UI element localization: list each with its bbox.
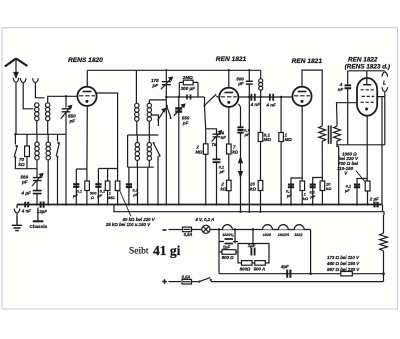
- ground jack: [14, 205, 20, 217]
- capacitor 0,1uF leg2: [95, 183, 101, 205]
- tube REN 1821 first: [219, 88, 238, 107]
- svg-text:0,5A: 0,5A: [184, 232, 193, 237]
- coil L8 lower secondary: [147, 135, 151, 167]
- svg-text:L: L: [383, 81, 386, 87]
- resistor 500 Ohm cathode: [85, 169, 90, 205]
- resistor 800 Ohm box: [242, 261, 253, 266]
- callout line 40k: [120, 191, 131, 217]
- resistor 2 MOhm grid leak: [183, 80, 193, 85]
- svg-text:µF: µF: [286, 193, 292, 198]
- wire loop to switch: [198, 96, 205, 98]
- wire drop to 1uF box: [252, 230, 254, 244]
- svg-text:kΩ: kΩ: [18, 162, 25, 167]
- svg-text:µF: µF: [219, 169, 225, 174]
- switch S4: [153, 142, 161, 205]
- callout 1060 Ohm: [356, 171, 366, 183]
- capacitor 0,1uF leg1: [73, 183, 79, 205]
- wire jack A2 to coil L1: [23, 85, 33, 109]
- wire tube2 anode up: [228, 70, 230, 87]
- node rail 500pF: [248, 69, 250, 71]
- wire tube3 cathode: [301, 107, 303, 181]
- capacitor 4 nF on bus: [25, 202, 28, 208]
- bus junction dots: [36, 203, 369, 213]
- svg-text:800Ω: 800Ω: [240, 266, 251, 271]
- wire primary bottom to 20k: [321, 143, 323, 181]
- heater 1820 a: [223, 225, 233, 230]
- label 1060 Ohm block: [337, 152, 359, 176]
- svg-text:REN 1822: REN 1822: [348, 56, 378, 63]
- wire anode rail top: [87, 69, 260, 71]
- node mid-left: [14, 133, 16, 135]
- svg-text:MΩ: MΩ: [195, 149, 203, 154]
- grid leak loop: [179, 82, 198, 97]
- wire jack A3 to grid node: [35, 85, 44, 98]
- capacitor 0,1uF AF: [310, 178, 323, 205]
- svg-text:41 gi: 41 gi: [153, 243, 181, 258]
- svg-text:kΩ: kΩ: [303, 196, 309, 201]
- resistor 20 kOhm AF: [320, 181, 325, 205]
- svg-text:1820: 1820: [263, 233, 272, 237]
- svg-text:µF: µF: [237, 81, 244, 86]
- antenna jack A2: [20, 78, 26, 85]
- svg-text:1821½: 1821½: [278, 233, 290, 237]
- wire coil tap: [151, 115, 159, 126]
- svg-text:480 Ω bei 150 V: 480 Ω bei 150 V: [326, 261, 360, 266]
- svg-text:Chassis: Chassis: [30, 224, 48, 229]
- node rail 175pF: [165, 69, 167, 71]
- node heater return: [309, 272, 312, 275]
- svg-text:nF: nF: [221, 135, 227, 140]
- wire plus lead: [169, 281, 182, 283]
- wire mains right vertical: [383, 274, 385, 282]
- wire tube1 anode up: [86, 70, 88, 86]
- svg-text:REN 1821: REN 1821: [216, 56, 247, 63]
- node heater mid2: [252, 228, 254, 230]
- antenna jack A3: [33, 78, 39, 85]
- bus chassis rail: [17, 204, 383, 206]
- wire mid horizontal stage1: [15, 133, 66, 135]
- fuse 0,5A bottom: [182, 279, 192, 284]
- svg-text:800 Ω: 800 Ω: [222, 255, 235, 260]
- capacitor 1 uF shunt: [219, 239, 238, 244]
- fuse 0,5A top: [181, 227, 202, 232]
- antenna: [5, 59, 28, 85]
- svg-text:(RENS 1823 d.): (RENS 1823 d.): [345, 63, 390, 70]
- svg-text:173 Ω bei 110 V: 173 Ω bei 110 V: [327, 255, 360, 260]
- capacitor 4 uF: [33, 191, 42, 205]
- svg-text:µF: µF: [132, 192, 138, 197]
- svg-text:pF: pF: [182, 120, 189, 125]
- svg-text:500 A: 500 A: [254, 266, 266, 271]
- RF choke: [259, 70, 263, 97]
- svg-text:pF: pF: [21, 180, 28, 185]
- svg-text:4µF: 4µF: [280, 264, 289, 269]
- svg-text:1µF: 1µF: [248, 243, 256, 248]
- switch S1 wave band left: [14, 134, 17, 168]
- svg-text:2MΩ: 2MΩ: [182, 75, 193, 80]
- svg-text:RENS 1820: RENS 1820: [68, 57, 103, 64]
- wire tube1 cathode down: [86, 107, 88, 169]
- capacitor 2 uF on bus: [375, 202, 378, 208]
- variable capacitor 175 pF: [161, 70, 172, 204]
- capacitor 4 nF grid tube4: [345, 71, 352, 145]
- wire secondary top to grid node: [149, 99, 166, 101]
- wire secondary top to grid tube4: [337, 103, 358, 126]
- coil L5 coupling primary: [135, 103, 139, 135]
- capacitor 0,1uF leg3: [126, 183, 132, 205]
- svg-text:MΩ: MΩ: [285, 137, 293, 142]
- svg-text:4 nF: 4 nF: [21, 209, 31, 214]
- svg-text:pF: pF: [69, 119, 76, 124]
- potentiometer arrow: [239, 157, 243, 211]
- tube RENS 1820: [77, 87, 96, 106]
- variable capacitor 550 pF second gang: [174, 97, 185, 205]
- wire mid horizontal stage2: [128, 134, 159, 136]
- node rail tube2: [228, 69, 230, 71]
- AF transformer core: [329, 125, 332, 143]
- wire anode tube4 to jack: [378, 97, 385, 145]
- svg-text:µF: µF: [309, 194, 315, 199]
- svg-text:kΩ: kΩ: [250, 186, 256, 191]
- wire rail drop to coupling coil: [135, 70, 137, 103]
- wire jack line down: [381, 97, 383, 205]
- svg-text:µF: µF: [344, 188, 350, 193]
- wire heater chain: [218, 229, 311, 231]
- coil L3 lower primary: [35, 134, 39, 168]
- heater 1820 b: [263, 225, 273, 230]
- capacitor 12 uF on bus: [41, 202, 44, 208]
- resistor 1 MOhm grid tube3: [279, 97, 284, 205]
- switch S5 grid tube2: [204, 94, 219, 107]
- resistor 2 MOhm bias: [203, 107, 208, 205]
- heater network box: [238, 244, 269, 263]
- svg-text:300 µF: 300 µF: [181, 86, 196, 91]
- capacitor 0,1 uF bias: [213, 159, 221, 204]
- resistor 500 Ohm box: [255, 261, 265, 266]
- variable capacitor 550 pF: [61, 96, 72, 204]
- resistor box mains: [341, 272, 353, 276]
- svg-text:µF: µF: [96, 193, 102, 198]
- node grid tube3: [280, 96, 282, 98]
- svg-text:Ta: Ta: [211, 142, 217, 147]
- switch S3: [166, 105, 172, 119]
- ground symbol: [12, 216, 22, 231]
- AF transformer primary winding: [319, 126, 326, 143]
- resistor 70 kOhm: [25, 134, 30, 168]
- svg-text:867 Ω bei 220 V: 867 Ω bei 220 V: [327, 267, 360, 272]
- wire tube4 cathode: [366, 116, 368, 181]
- svg-text:kΩ: kΩ: [232, 149, 238, 154]
- terminal minus: [163, 229, 167, 231]
- svg-text:2 µF: 2 µF: [369, 197, 379, 202]
- capacitor 0,1 uF screen tube2: [237, 104, 243, 158]
- coil L2 antenna secondary: [46, 98, 50, 135]
- capacitor 500 pF anode: [246, 70, 253, 213]
- wire cathode jog: [76, 169, 87, 183]
- svg-text:MΩ: MΩ: [264, 137, 272, 142]
- wire tube1 grid to coil L2: [48, 96, 77, 98]
- capacitor 1 uF box: [251, 248, 254, 256]
- node loop left: [178, 96, 180, 98]
- switch mains: [192, 278, 384, 283]
- resistor 2 kOhm: [227, 180, 232, 204]
- speaker jack upper: [382, 71, 388, 77]
- chassis connection: [33, 208, 44, 222]
- resistor 1 kOhm cathode tube3: [300, 181, 305, 205]
- svg-text:nF: nF: [338, 87, 344, 92]
- bus second rail: [114, 205, 384, 216]
- wire bus1 right down: [382, 205, 384, 212]
- AF transformer secondary winding: [334, 126, 341, 143]
- wire stage2 legs: [129, 167, 148, 204]
- svg-text:1822: 1822: [294, 233, 303, 237]
- variable capacitor 560 pF: [32, 169, 43, 190]
- trimmer Ta: [206, 129, 222, 159]
- svg-text:REN 1821: REN 1821: [292, 58, 323, 65]
- resistor 20 kOhm volume: [258, 181, 263, 212]
- dial lamp 4V 0,2A: [202, 225, 218, 233]
- svg-text:0,5A: 0,5A: [182, 275, 191, 280]
- resistor 40k dropper: [115, 169, 120, 205]
- switch S2 wave band right: [56, 134, 59, 204]
- wire heater end down: [310, 230, 312, 274]
- wire minus lead: [169, 229, 182, 231]
- svg-text:1µF: 1µF: [223, 244, 231, 249]
- heater 1822: [294, 225, 304, 230]
- coil L6 coupling secondary: [147, 100, 151, 135]
- node mid caps: [260, 96, 262, 98]
- wire heater return: [219, 273, 384, 275]
- tube REN 1822 output: [357, 78, 377, 116]
- wire secondary bottom to bus: [337, 143, 339, 204]
- resistor 1 MOhm screen: [105, 181, 110, 205]
- node heater mid1: [234, 228, 236, 230]
- capacitor 4 nF coupling 1: [251, 94, 254, 101]
- capacitor 0,1uF cathode tube3: [288, 178, 302, 205]
- wire stage2 left riser: [127, 135, 129, 167]
- resistor cathode tube4: [365, 181, 370, 205]
- tube REN 1821 second: [292, 87, 311, 106]
- svg-text:µF: µF: [72, 193, 78, 198]
- node mains right: [382, 272, 385, 275]
- wire tube1 screen to dropper: [97, 93, 118, 169]
- wire antenna down lead: [15, 85, 17, 135]
- capacitor 4 uF heater: [287, 270, 290, 278]
- capacitor 0,1uF cathode tube4: [354, 179, 368, 205]
- resistor 7 kOhm: [227, 108, 232, 181]
- svg-text:kΩ: kΩ: [220, 186, 226, 191]
- node 550pF junction: [65, 95, 67, 97]
- terminal plus: [162, 279, 167, 284]
- wire secondary bottom: [337, 143, 385, 145]
- wire drop to box: [234, 230, 236, 244]
- wire screen jog: [98, 169, 117, 184]
- dropper resistor zigzag: [380, 215, 388, 274]
- coil L1 antenna primary: [35, 103, 39, 135]
- coil L7 lower primary: [135, 135, 139, 167]
- wire top cap: [348, 71, 385, 84]
- svg-text:MΩ: MΩ: [108, 195, 115, 200]
- coil L4 lower secondary: [46, 134, 50, 204]
- svg-text:4 V, 0,2 A: 4 V, 0,2 A: [194, 217, 214, 222]
- svg-text:pF: pF: [152, 83, 159, 88]
- wire grid line to loop: [166, 96, 179, 98]
- svg-text:4 µF: 4 µF: [21, 190, 31, 195]
- svg-text:25 kΩ bei 110 u.150 V: 25 kΩ bei 110 u.150 V: [105, 222, 151, 227]
- capacitor 300 pF: [187, 95, 191, 100]
- heater 1821: [278, 225, 288, 230]
- node grid wire: [165, 96, 167, 98]
- svg-text:kΩ: kΩ: [326, 186, 332, 191]
- node heater left: [218, 228, 220, 230]
- wire tube3 anode: [302, 70, 322, 126]
- wire bottom horizontal stage1: [15, 168, 37, 170]
- svg-text:Seibt: Seibt: [129, 247, 149, 257]
- wire bottom horizontal stage2: [128, 166, 154, 168]
- svg-text:4 nF: 4 nF: [265, 103, 276, 108]
- svg-text:1820¼: 1820¼: [222, 233, 234, 237]
- resistor 0,1 MOhm: [258, 97, 263, 181]
- capacitor 4 nF coupling 2: [270, 94, 273, 101]
- wire lamp shunt left: [218, 230, 220, 274]
- label 173 Ohm block: [326, 255, 360, 272]
- speaker jack lower: [382, 87, 388, 96]
- svg-text:4 nF: 4 nF: [250, 102, 261, 107]
- coupling arrow: [158, 109, 166, 121]
- wire detector output: [239, 96, 292, 98]
- resistor 800 Ohm shunt: [219, 250, 238, 255]
